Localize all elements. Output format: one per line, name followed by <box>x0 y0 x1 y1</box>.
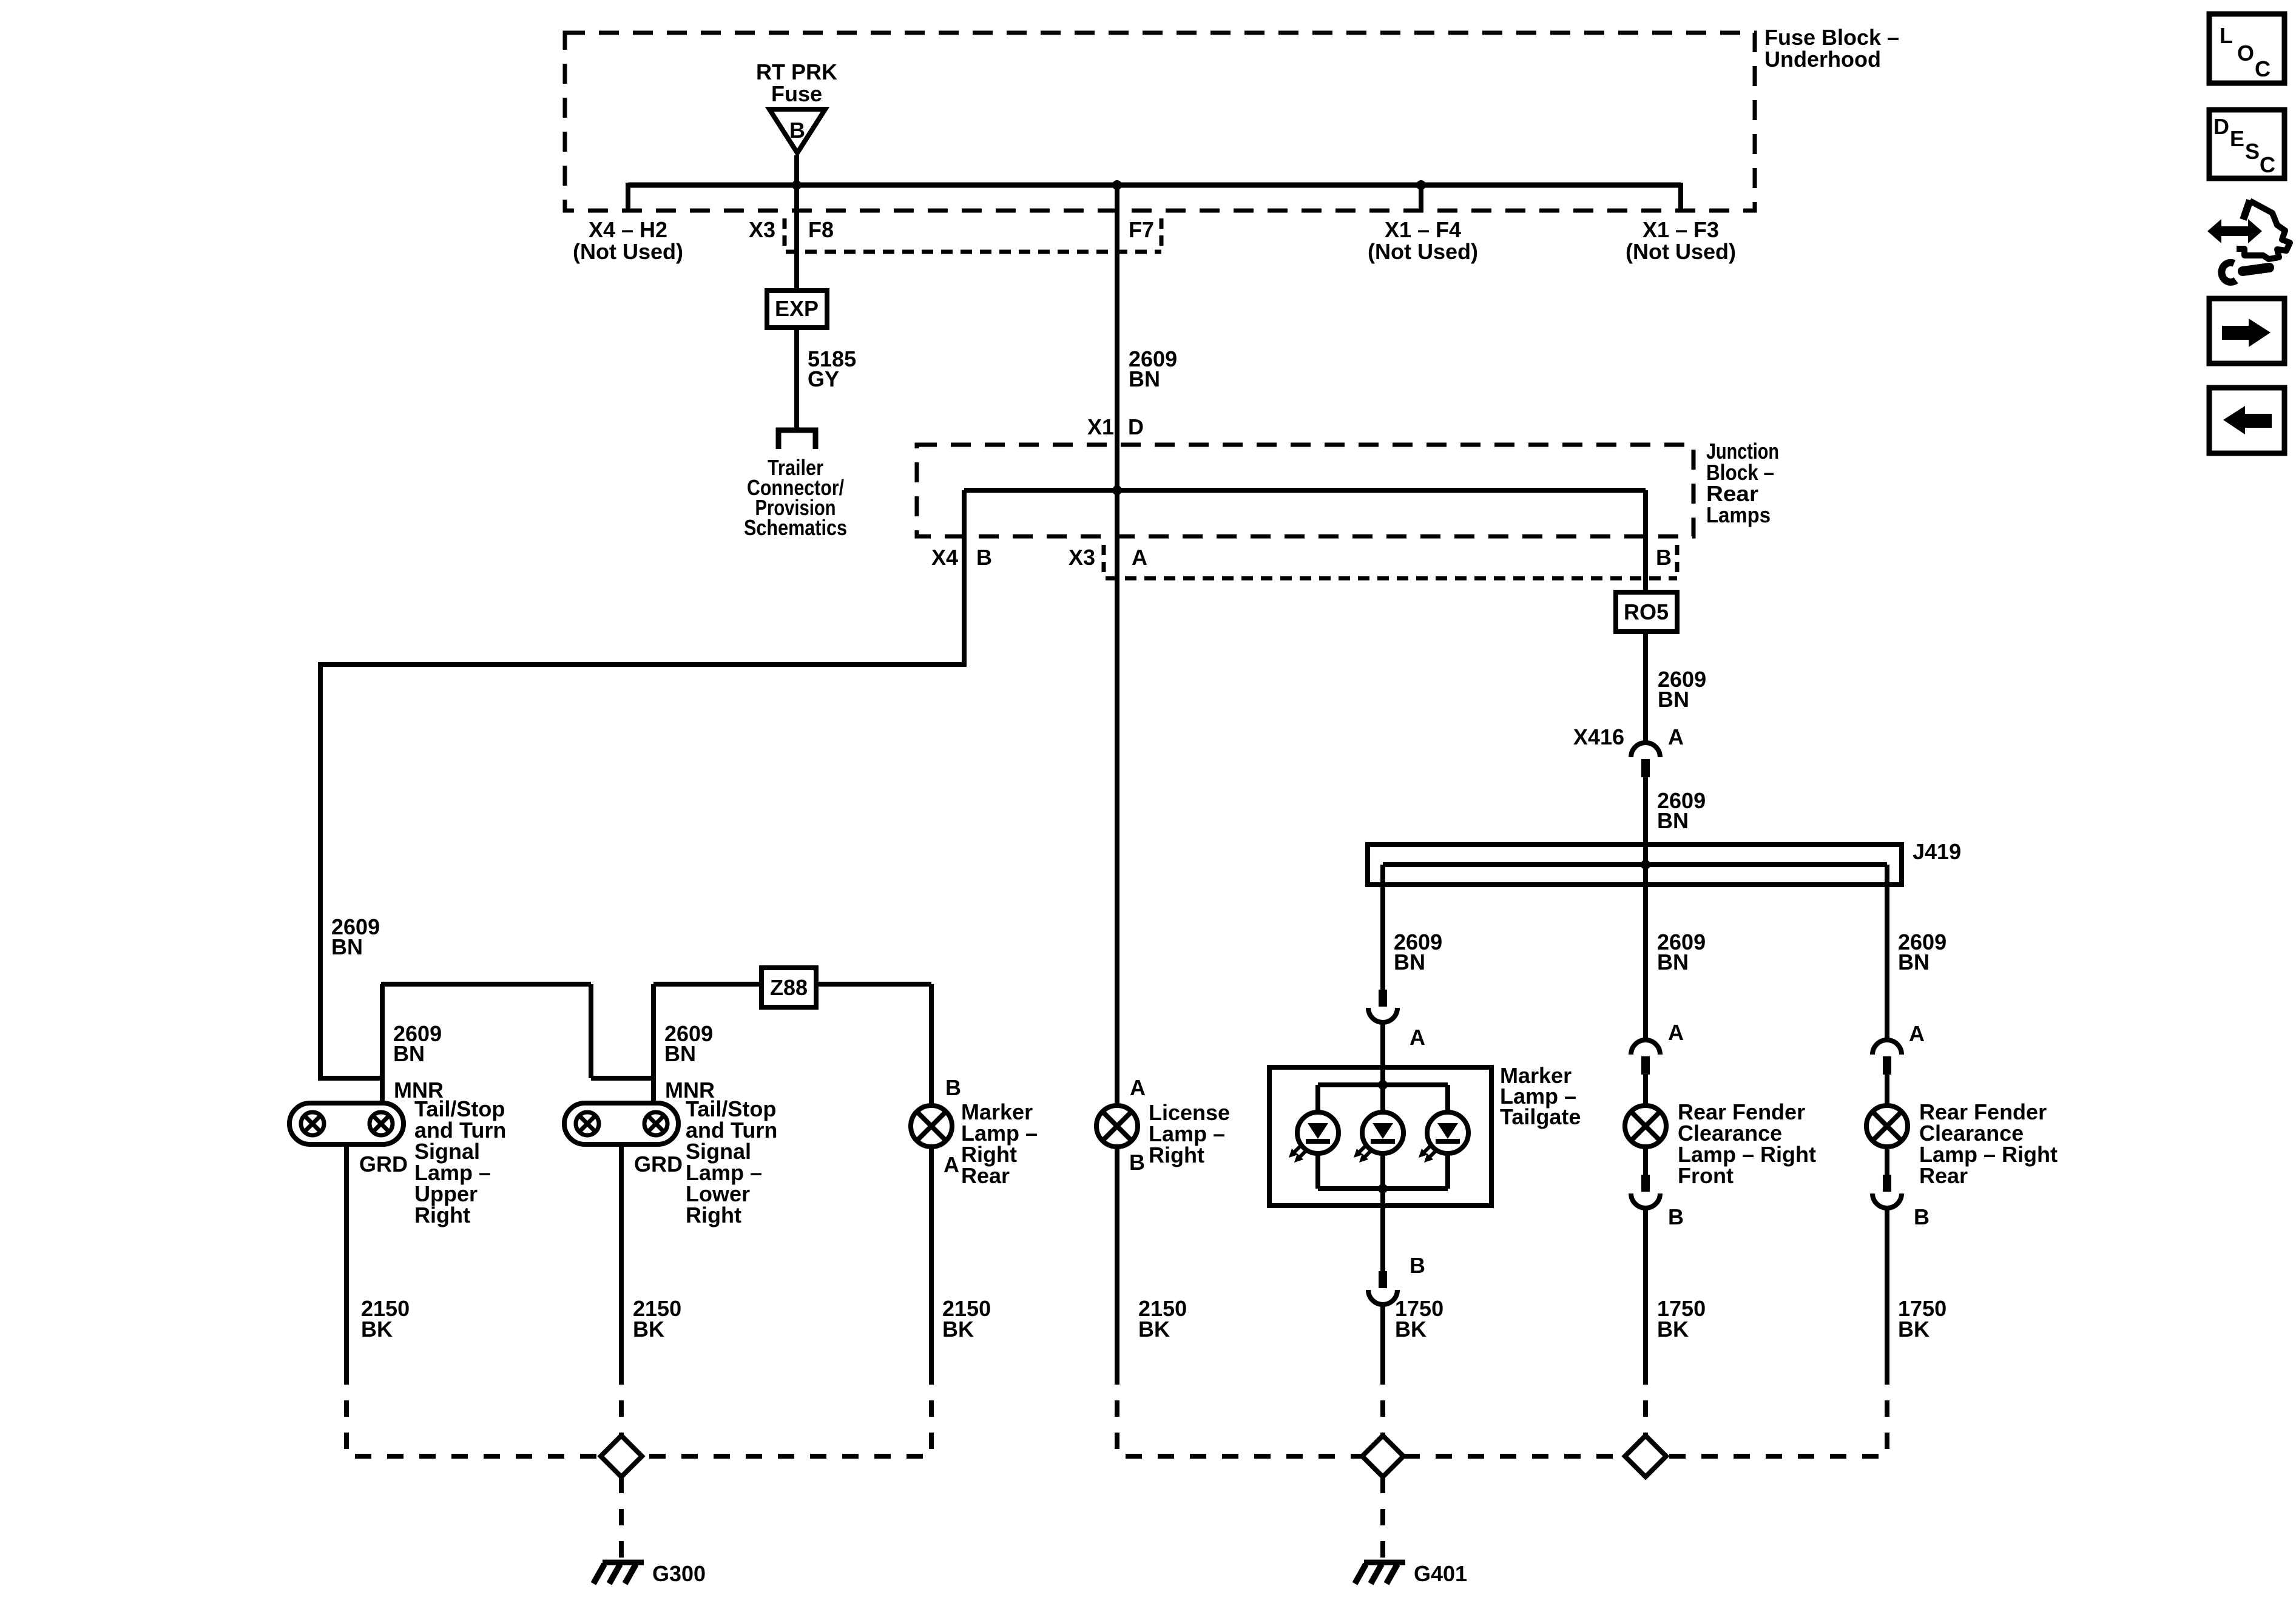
wire stub X1-F4 <box>1419 183 1423 211</box>
svg-text:Z88: Z88 <box>770 975 808 1000</box>
svg-text:RO5: RO5 <box>1624 599 1669 624</box>
node tailgate bus top <box>1378 1080 1388 1090</box>
svg-text:GY: GY <box>808 366 839 391</box>
wire label 2609 BN tail upper riser <box>393 1021 442 1066</box>
wire clearance rear to ground 1750 BK <box>1885 1208 1889 1368</box>
dashed ground run tailgate <box>1380 1368 1385 1435</box>
svg-text:X416: X416 <box>1573 724 1624 749</box>
dashed ground run clearance front <box>1643 1368 1648 1435</box>
splice diamond G401 <box>1362 1436 1403 1477</box>
splice pack J419 <box>1368 845 1902 885</box>
svg-text:BN: BN <box>664 1041 696 1066</box>
svg-text:Right: Right <box>414 1203 470 1227</box>
wire clearance front to ground 1750 BK <box>1643 1208 1648 1368</box>
wire Z88 to marker lamp <box>816 984 931 1106</box>
wire GRD tail lower down <box>619 1144 624 1368</box>
svg-text:A: A <box>1909 1021 1925 1046</box>
pin label X4 - H2 (Not Used) <box>573 217 683 264</box>
wire clearance front lamp to connector B <box>1643 1147 1648 1175</box>
wire label 2609 BN clearance rear <box>1898 930 1947 974</box>
svg-text:Schematics: Schematics <box>744 515 847 540</box>
svg-text:X1: X1 <box>1087 414 1114 439</box>
wire X4 B exit down and west <box>320 490 964 1078</box>
svg-text:A: A <box>944 1152 959 1177</box>
pin label X1 - F3 (Not Used) <box>1626 217 1736 264</box>
svg-text:BK: BK <box>1138 1317 1170 1342</box>
svg-text:B: B <box>1410 1253 1425 1278</box>
svg-text:B: B <box>1129 1150 1145 1175</box>
node J419 junction <box>1641 860 1650 869</box>
lamp rear fender clearance right front <box>1625 1106 1666 1147</box>
svg-text:D: D <box>1128 414 1144 439</box>
wire F7 down to license lamp 2609 BN <box>1115 185 1119 1106</box>
wire label 5185 GY <box>808 346 856 391</box>
svg-text:X3: X3 <box>749 217 775 242</box>
node F7-bus junction <box>1112 180 1122 190</box>
svg-text:B: B <box>1914 1204 1930 1229</box>
wire X416 to J419 2609 BN <box>1643 777 1648 865</box>
svg-text:A: A <box>1668 724 1684 749</box>
svg-text:BN: BN <box>1129 366 1160 391</box>
sidebar LOC button <box>2209 14 2284 83</box>
svg-text:GRD: GRD <box>634 1152 683 1176</box>
svg-text:X1 – F3: X1 – F3 <box>1643 217 1719 242</box>
trailer connector label <box>744 455 847 540</box>
splice diamond clearance front <box>1625 1436 1666 1477</box>
svg-text:C: C <box>2255 56 2271 81</box>
svg-text:BN: BN <box>393 1041 425 1066</box>
dashed ground bus between diamonds <box>1403 1454 1625 1459</box>
wire tail lamp feed upper <box>381 984 653 1078</box>
svg-text:A: A <box>1668 1020 1684 1045</box>
wire label 2150 BK tail lower <box>633 1296 681 1342</box>
svg-text:X4 – H2: X4 – H2 <box>589 217 667 242</box>
svg-text:Right: Right <box>686 1203 741 1227</box>
connector separator X3 fuse block <box>783 218 787 249</box>
lamp license right <box>1096 1106 1138 1147</box>
license lamp label <box>1149 1100 1230 1167</box>
svg-text:Rear: Rear <box>961 1163 1010 1188</box>
node fuse-bus junction <box>792 180 802 190</box>
sidebar back arrow button <box>2209 388 2284 453</box>
wire clearance rear lamp to connector B <box>1885 1147 1889 1175</box>
svg-text:F8: F8 <box>808 217 834 242</box>
lamp marker right rear <box>911 1106 952 1147</box>
connector A clearance rear inline <box>1872 1040 1902 1075</box>
svg-text:BK: BK <box>1657 1317 1689 1342</box>
marker lamp tailgate label <box>1500 1063 1581 1129</box>
svg-text:BN: BN <box>331 934 363 959</box>
svg-text:Fuse: Fuse <box>771 81 822 106</box>
svg-text:EXP: EXP <box>775 296 819 321</box>
wire lamp lower to Z88 <box>653 982 761 987</box>
fuse block underhood label <box>1764 25 1899 72</box>
svg-text:RT PRK: RT PRK <box>756 59 837 84</box>
node X1-F4-bus junction <box>1416 180 1426 190</box>
wire EXP to trailer connector 5185 GY <box>794 328 799 428</box>
wire tailgate connector to lamp <box>1380 1022 1385 1271</box>
svg-text:F7: F7 <box>1129 217 1154 242</box>
wire riser tail lamp lower MNR <box>651 984 656 1103</box>
svg-text:BN: BN <box>1898 950 1930 974</box>
svg-text:BK: BK <box>633 1317 664 1342</box>
node tailgate bus bottom <box>1378 1184 1388 1193</box>
connector separator X3 junction <box>1102 545 1106 575</box>
connector strip fuse block <box>786 250 1161 254</box>
dashed ground run tail lower <box>619 1368 624 1435</box>
wire license lamp down 2150 BK <box>1115 1147 1119 1368</box>
connector separator B junction <box>1675 545 1680 575</box>
wire GRD tail upper down <box>344 1144 349 1368</box>
lamp rear fender clearance right rear <box>1866 1106 1908 1147</box>
LED 1 tailgate <box>1289 1112 1339 1163</box>
wire label 2150 BK tail upper <box>361 1296 410 1342</box>
ground symbol G300 <box>593 1562 644 1584</box>
svg-text:BN: BN <box>1394 950 1425 974</box>
svg-text:J419: J419 <box>1913 839 1961 864</box>
svg-text:BK: BK <box>1898 1317 1930 1342</box>
dashed ground run marker <box>643 1368 931 1456</box>
connector A tailgate inline <box>1368 990 1397 1022</box>
tail lamp upper label <box>414 1096 506 1227</box>
dashed ground run clearance rear <box>1666 1368 1887 1456</box>
ground symbol G401 <box>1355 1562 1405 1584</box>
svg-text:A: A <box>1130 1075 1146 1100</box>
node junction block tap <box>1112 485 1122 495</box>
svg-text:Front: Front <box>1678 1163 1734 1188</box>
wire bus right end down X1-F3 <box>1678 183 1683 211</box>
svg-text:A: A <box>1132 545 1147 570</box>
wire LED left drops <box>1315 1085 1320 1189</box>
svg-text:X1 – F4: X1 – F4 <box>1385 217 1461 242</box>
connector strip junction block <box>1106 576 1677 581</box>
junction block label <box>1706 439 1779 527</box>
dashed ground run license <box>1117 1368 1362 1456</box>
svg-text:Fuse Block –: Fuse Block – <box>1764 25 1899 50</box>
wire tailgate LED bus top <box>1318 1082 1448 1087</box>
svg-text:GRD: GRD <box>359 1152 408 1176</box>
svg-text:D: D <box>2213 114 2229 139</box>
svg-text:(Not Used): (Not Used) <box>1626 239 1736 264</box>
dashed ground run tail upper <box>346 1368 600 1456</box>
wire label 1750 BK clearance front <box>1657 1296 1706 1342</box>
wire J419 to tailgate lamp <box>1380 865 1385 990</box>
svg-text:B: B <box>1656 545 1672 570</box>
svg-text:B: B <box>789 118 805 143</box>
trailer connector bracket <box>778 430 815 449</box>
svg-text:Underhood: Underhood <box>1764 47 1881 72</box>
LED 2 tailgate <box>1354 1112 1403 1163</box>
connector A clearance front inline <box>1631 1040 1660 1075</box>
tail stop turn lamp lower right <box>564 1103 678 1144</box>
connector RO5 <box>1616 592 1677 632</box>
svg-text:BK: BK <box>942 1317 974 1342</box>
sidebar DESC button <box>2209 110 2284 178</box>
svg-text:B: B <box>1668 1204 1684 1229</box>
wire label 2609 BN left main <box>331 914 380 959</box>
svg-text:Rear: Rear <box>1919 1163 1968 1188</box>
svg-text:BN: BN <box>1657 808 1689 833</box>
wire marker lamp down <box>929 1147 934 1368</box>
svg-text:O: O <box>2237 41 2254 66</box>
connector EXP <box>767 291 827 328</box>
wire J419 to clearance rear connector <box>1885 865 1889 1040</box>
fuse RT PRK label <box>756 59 837 106</box>
marker lamp right rear label <box>961 1099 1038 1188</box>
svg-text:Tailgate: Tailgate <box>1500 1104 1581 1129</box>
svg-text:BK: BK <box>1395 1317 1427 1342</box>
LED 3 tailgate <box>1419 1112 1468 1163</box>
wire label 1750 BK clearance rear <box>1898 1296 1947 1342</box>
svg-text:G401: G401 <box>1414 1561 1467 1586</box>
svg-text:(Not Used): (Not Used) <box>1368 239 1478 264</box>
wire label 2150 BK marker <box>942 1296 991 1342</box>
svg-text:C: C <box>2260 152 2275 177</box>
connector B clearance front inline <box>1631 1175 1660 1208</box>
svg-text:BN: BN <box>1657 950 1689 974</box>
svg-text:(Not Used): (Not Used) <box>573 239 683 264</box>
wire bus inside fuse block <box>628 183 1681 188</box>
svg-text:G300: G300 <box>652 1561 706 1586</box>
svg-text:L: L <box>2220 23 2233 48</box>
wire LED right drops <box>1445 1085 1450 1189</box>
clearance front lamp label <box>1678 1099 1816 1188</box>
dashed ground stem G300 <box>619 1477 624 1561</box>
wire label 2609 BN below RO5 <box>1658 667 1706 712</box>
svg-text:B: B <box>976 545 992 570</box>
wire junction block internal bus <box>964 488 1646 493</box>
sidebar hand tool icon <box>2207 200 2290 282</box>
wire stub X4-H2 <box>626 183 630 211</box>
pin label X1 - F4 (Not Used) <box>1368 217 1478 264</box>
wire label 2609 BN below F7 <box>1129 346 1177 391</box>
svg-text:Right: Right <box>1149 1143 1204 1167</box>
wire label 2609 BN tail lower riser <box>664 1021 713 1066</box>
connector B clearance rear inline <box>1872 1175 1902 1208</box>
wire label 1750 BK tailgate <box>1395 1296 1443 1342</box>
tail lamp lower label <box>686 1096 777 1227</box>
wire riser tail lamp upper MNR <box>380 984 385 1103</box>
wire to clearance front lamp <box>1643 1075 1648 1106</box>
svg-text:E: E <box>2230 126 2244 151</box>
splice diamond G300 <box>601 1436 642 1477</box>
connector X416 inline <box>1631 743 1660 777</box>
marker lamp tailgate box <box>1269 1067 1491 1206</box>
dashed ground stem G401 <box>1380 1477 1385 1561</box>
wire label 2150 BK license <box>1138 1296 1187 1342</box>
svg-text:X4: X4 <box>931 545 958 570</box>
svg-text:BK: BK <box>361 1317 393 1342</box>
tail stop turn lamp upper right <box>289 1103 403 1144</box>
wire fuse to EXP <box>794 155 799 291</box>
wire tailgate to ground 1750 BK <box>1380 1305 1385 1368</box>
wire label 2609 BN tailgate <box>1394 930 1442 974</box>
wire J419 through to clearance front connector <box>1643 865 1648 1040</box>
svg-text:BN: BN <box>1658 687 1689 712</box>
connector separator F7 fuse block <box>1160 218 1164 249</box>
wire label 2609 BN clearance front <box>1657 930 1706 974</box>
wire junction B exit to RO5 <box>1643 490 1648 592</box>
wire RO5 to X416 2609 BN <box>1643 632 1648 743</box>
wire label 2609 BN above J419 <box>1657 788 1706 833</box>
connector B tailgate inline <box>1368 1271 1397 1305</box>
fuse RT PRK symbol <box>769 109 825 153</box>
svg-text:X3: X3 <box>1069 545 1095 570</box>
fuse block underhood dashed box <box>565 33 1755 211</box>
wire tailgate LED bus bottom <box>1318 1186 1448 1191</box>
svg-text:A: A <box>1410 1025 1425 1050</box>
svg-text:S: S <box>2245 139 2260 164</box>
svg-text:B: B <box>945 1075 961 1100</box>
svg-text:Lamps: Lamps <box>1706 502 1771 527</box>
wire to clearance rear lamp <box>1885 1075 1889 1106</box>
sidebar next arrow button <box>2209 299 2284 363</box>
clearance rear lamp label <box>1919 1099 2058 1188</box>
pin label X1 D junction block <box>1087 414 1144 439</box>
junction block rear lamps dashed box <box>917 445 1693 536</box>
splice Z88 <box>761 968 816 1007</box>
